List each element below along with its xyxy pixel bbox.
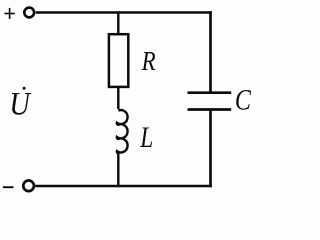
- wire right branch lower: [209, 110, 212, 188]
- terminal bottom (open circle): [23, 181, 34, 192]
- svg-text:C: C: [235, 85, 251, 117]
- terminal top (open circle): [24, 8, 34, 18]
- svg-text:U: U: [9, 87, 31, 123]
- wire middle branch lower: [117, 153, 119, 187]
- wire resistor to inductor: [117, 87, 119, 109]
- plus polarity mark: [4, 8, 14, 19]
- wire top: [36, 11, 212, 13]
- wire bottom: [35, 185, 212, 187]
- capacitor C plate top: [188, 91, 232, 94]
- svg-text:L: L: [140, 122, 154, 154]
- source label U dot (phasor U): [9, 87, 31, 123]
- resistor R: [109, 34, 128, 87]
- wire right branch upper: [209, 11, 212, 92]
- wire middle branch upper: [117, 11, 119, 34]
- capacitor C plate bottom: [188, 108, 232, 111]
- minus polarity mark: [3, 186, 14, 188]
- svg-text:R: R: [141, 46, 156, 76]
- inductor L: [117, 110, 128, 153]
